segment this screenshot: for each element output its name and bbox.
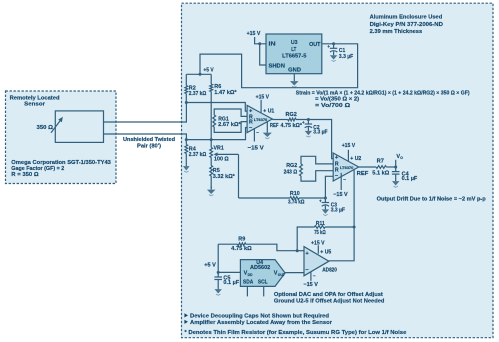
svg-text:+5 V: +5 V bbox=[204, 262, 216, 268]
svg-text:−: − bbox=[256, 130, 259, 136]
svg-text:Sensor: Sensor bbox=[24, 101, 46, 107]
svg-text:+ U1: + U1 bbox=[263, 108, 274, 114]
svg-text:LT6657-5: LT6657-5 bbox=[282, 53, 306, 59]
svg-text:GND: GND bbox=[288, 68, 301, 74]
svg-text:R7: R7 bbox=[377, 159, 384, 165]
svg-text:SHDN: SHDN bbox=[269, 63, 285, 69]
svg-text:+5 V: +5 V bbox=[203, 68, 213, 74]
svg-text:3.3 µF: 3.3 µF bbox=[313, 130, 328, 136]
svg-text:+15 V: +15 V bbox=[342, 143, 356, 149]
svg-text:SDA: SDA bbox=[243, 280, 253, 286]
svg-text:+15 V: +15 V bbox=[256, 95, 270, 101]
svg-text:LT: LT bbox=[291, 47, 297, 53]
svg-text:75 kΩ: 75 kΩ bbox=[314, 230, 326, 236]
svg-text:5.1 kΩ: 5.1 kΩ bbox=[372, 170, 390, 176]
svg-text:3.3 µF: 3.3 µF bbox=[331, 208, 346, 214]
svg-text:= Vo/(350 Ω × 2): = Vo/(350 Ω × 2) bbox=[315, 97, 359, 103]
svg-text:4.75 kΩ*: 4.75 kΩ* bbox=[281, 123, 303, 129]
svg-text:Pair (80′): Pair (80′) bbox=[137, 144, 161, 150]
svg-text:−15 V: −15 V bbox=[333, 192, 348, 198]
svg-text:* Denotes Thin Film Resistor (: * Denotes Thin Film Resistor (for Exampl… bbox=[184, 330, 406, 336]
svg-text:−15 V: −15 V bbox=[303, 282, 318, 288]
svg-text:RG2: RG2 bbox=[286, 112, 297, 118]
svg-text:Output Drift Due to 1/f Noise: Output Drift Due to 1/f Noise = ~2 mV p-… bbox=[377, 197, 486, 203]
svg-text:R9: R9 bbox=[238, 237, 245, 243]
svg-text:+ U5: + U5 bbox=[320, 249, 331, 255]
svg-text:OUT: OUT bbox=[309, 42, 321, 48]
svg-text:2.67 kΩ*: 2.67 kΩ* bbox=[218, 122, 241, 128]
svg-text:Optional DAC and OPA for Offse: Optional DAC and OPA for Offset Adjust bbox=[274, 292, 383, 298]
svg-text:−15 V: −15 V bbox=[248, 146, 265, 152]
svg-text:4.75 kΩ: 4.75 kΩ bbox=[231, 246, 252, 252]
svg-text:R10: R10 bbox=[290, 191, 300, 197]
svg-text:0.1 µF: 0.1 µF bbox=[223, 280, 239, 286]
svg-text:+: + bbox=[319, 198, 322, 203]
svg-text:LT6370: LT6370 bbox=[254, 118, 268, 122]
svg-text:+15 V: +15 V bbox=[247, 31, 261, 37]
svg-text:R5: R5 bbox=[213, 168, 220, 174]
svg-text:+ U2: + U2 bbox=[350, 156, 361, 162]
svg-text:3.74 kΩ: 3.74 kΩ bbox=[288, 200, 305, 206]
svg-text:DD: DD bbox=[248, 273, 253, 277]
svg-text:2.39 mm Thickness: 2.39 mm Thickness bbox=[370, 29, 423, 35]
svg-text:Aluminum Enclosure Used: Aluminum Enclosure Used bbox=[370, 15, 443, 21]
svg-text:R = 350 Ω: R = 350 Ω bbox=[11, 172, 39, 178]
svg-text:U3: U3 bbox=[291, 40, 298, 46]
svg-text:Digi-Key P/N 377-2006-ND: Digi-Key P/N 377-2006-ND bbox=[370, 22, 443, 28]
svg-text:AD820: AD820 bbox=[322, 267, 337, 273]
svg-text:AD5602: AD5602 bbox=[250, 265, 270, 271]
svg-text:= Vo/700 Ω: = Vo/700 Ω bbox=[315, 103, 350, 109]
svg-text:SCL: SCL bbox=[258, 280, 268, 286]
svg-text:+: + bbox=[302, 120, 305, 125]
svg-text:350 Ω: 350 Ω bbox=[37, 125, 54, 131]
svg-text:Strain = Vo/(1 mA × (1 + 24.2: Strain = Vo/(1 mA × (1 + 24.2 kΩ/RG1) × … bbox=[296, 90, 470, 96]
svg-text:243 Ω: 243 Ω bbox=[284, 170, 298, 176]
svg-text:Unshielded Twisted: Unshielded Twisted bbox=[123, 137, 175, 143]
svg-text:0.1 µF: 0.1 µF bbox=[402, 176, 418, 182]
svg-text:3.32 kΩ*: 3.32 kΩ* bbox=[213, 174, 236, 180]
svg-text:IN: IN bbox=[269, 42, 276, 48]
svg-text:Device Decoupling Caps Not Sho: Device Decoupling Caps Not Shown but Req… bbox=[190, 314, 329, 320]
svg-text:VR1: VR1 bbox=[214, 145, 224, 151]
svg-text:100 Ω: 100 Ω bbox=[214, 157, 229, 163]
svg-text:REF: REF bbox=[270, 123, 279, 129]
svg-text:O: O bbox=[400, 156, 403, 160]
svg-text:−: − bbox=[313, 274, 316, 280]
svg-text:1.47 kΩ*: 1.47 kΩ* bbox=[214, 90, 237, 96]
svg-text:OUT: OUT bbox=[278, 273, 286, 277]
svg-text:2.37 kΩ: 2.37 kΩ bbox=[189, 152, 207, 158]
svg-text:RG2: RG2 bbox=[286, 163, 297, 169]
svg-text:−: − bbox=[343, 177, 346, 183]
svg-text:2.37 kΩ: 2.37 kΩ bbox=[189, 91, 207, 97]
svg-text:3.3 µF: 3.3 µF bbox=[339, 54, 354, 60]
svg-text:+15 V: +15 V bbox=[311, 240, 325, 246]
svg-text:LT6370: LT6370 bbox=[340, 166, 354, 170]
svg-text:R11: R11 bbox=[316, 221, 325, 227]
svg-text:REF: REF bbox=[357, 171, 369, 177]
svg-text:Ground U2-5 if Offset Adjust N: Ground U2-5 if Offset Adjust Not Needed bbox=[274, 299, 385, 305]
svg-text:Amplifier Assembly Located Awa: Amplifier Assembly Located Away from the… bbox=[190, 320, 333, 326]
svg-text:+: + bbox=[327, 44, 330, 49]
